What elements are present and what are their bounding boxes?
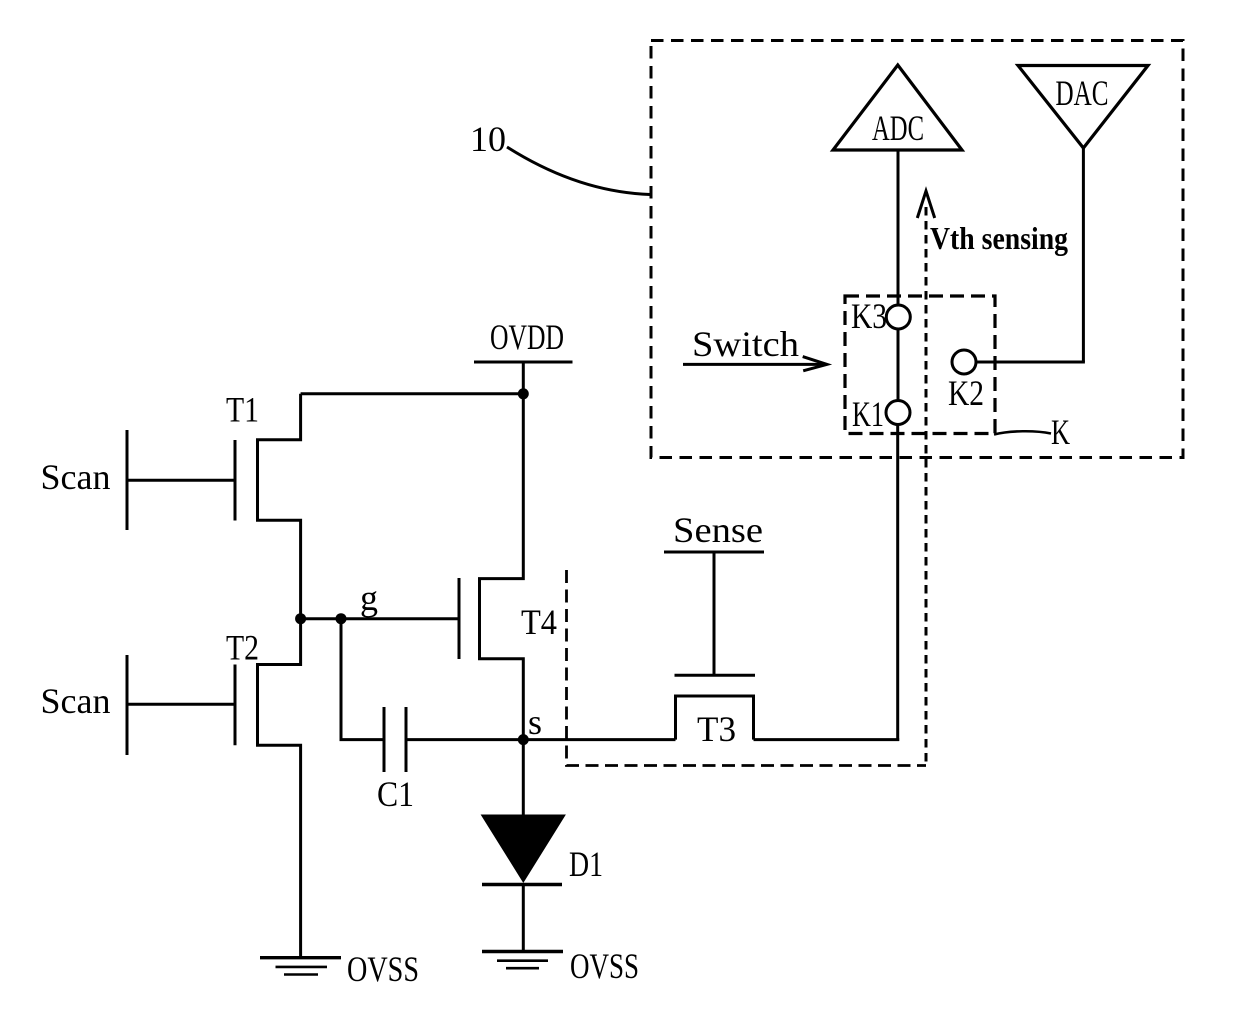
- svg-text:OVDD: OVDD: [490, 317, 564, 357]
- node g junction dots: [295, 613, 346, 624]
- svg-text:C1: C1: [377, 774, 414, 814]
- transistor T3: [675, 675, 756, 749]
- wire scan1 to T1 gate: [127, 479, 235, 482]
- svg-text:Scan: Scan: [41, 681, 111, 721]
- wire ADC stem to K3: [897, 150, 900, 305]
- wire OVDD rail to T1 drain: [301, 392, 524, 395]
- label g: [360, 578, 378, 618]
- node g wire: [301, 617, 459, 620]
- svg-text:OVSS: OVSS: [570, 946, 639, 986]
- diode D1 (OLED): [482, 815, 604, 885]
- DAC U-DAC triangle: [1018, 66, 1148, 149]
- leader line from 10 to box: [507, 147, 650, 195]
- wire scan2 to T2 gate: [127, 703, 235, 706]
- wire g to capacitor C1: [341, 619, 384, 740]
- wire K3 to K1: [897, 329, 900, 401]
- svg-text:K2: K2: [948, 373, 984, 413]
- wire D1 to ground: [522, 885, 525, 952]
- svg-text:DAC: DAC: [1056, 73, 1109, 113]
- svg-text:g: g: [360, 578, 378, 618]
- label 10: [470, 119, 506, 159]
- sense line bus: [664, 510, 764, 675]
- svg-text:s: s: [528, 702, 542, 742]
- svg-text:10: 10: [470, 119, 506, 159]
- box 10 (driver IC dashed outline): [651, 41, 1183, 458]
- label K with squiggle leader: [994, 412, 1070, 452]
- transistor T4: [459, 394, 557, 740]
- node s junction dot: [518, 702, 542, 745]
- wire DAC stem: [1082, 148, 1085, 362]
- dashed sensing-region boundary: [567, 570, 927, 766]
- wire C1 to node s: [406, 738, 523, 741]
- svg-text:K: K: [1051, 412, 1070, 452]
- svg-text:K3: K3: [851, 296, 887, 336]
- svg-text:T2: T2: [226, 628, 259, 668]
- Switch label with arrow: [683, 324, 827, 371]
- svg-text:T3: T3: [697, 709, 736, 749]
- ground OVSS right: [482, 946, 639, 986]
- ground OVSS left: [260, 949, 419, 989]
- ADC U-ADC triangle: [833, 65, 962, 150]
- wire node s to T3: [523, 738, 675, 741]
- Vth sensing dashed path arrow: [917, 191, 934, 766]
- svg-text:Sense: Sense: [673, 510, 763, 550]
- switch box K dashed outline: [845, 296, 995, 434]
- svg-text:Scan: Scan: [41, 457, 111, 497]
- svg-text:K1: K1: [852, 394, 884, 434]
- svg-text:ADC: ADC: [872, 108, 924, 148]
- svg-text:T4: T4: [521, 602, 557, 642]
- node OVDD junction dot: [518, 388, 529, 399]
- contact K3: [851, 296, 910, 336]
- transistor T1: [226, 390, 301, 619]
- wire T3 to K1 riser: [754, 738, 900, 741]
- scan line 1 bus: [41, 430, 128, 530]
- scan line 2 bus: [41, 655, 128, 755]
- contact K2: [948, 350, 984, 413]
- svg-text:Vth sensing: Vth sensing: [930, 220, 1068, 256]
- wire K2 to DAC: [976, 361, 1085, 364]
- capacitor C1: [377, 707, 414, 814]
- svg-text:D1: D1: [569, 844, 603, 884]
- OVDD supply label and bar: [474, 317, 573, 394]
- label Vth sensing: [930, 220, 1068, 256]
- svg-text:T1: T1: [226, 390, 259, 430]
- wire K1 down to T3 wire: [896, 425, 899, 742]
- svg-text:OVSS: OVSS: [347, 949, 419, 989]
- transistor T2: [226, 619, 301, 957]
- wire node s down to D1: [522, 740, 525, 815]
- svg-text:Switch: Switch: [692, 324, 799, 364]
- contact K1: [852, 394, 910, 434]
